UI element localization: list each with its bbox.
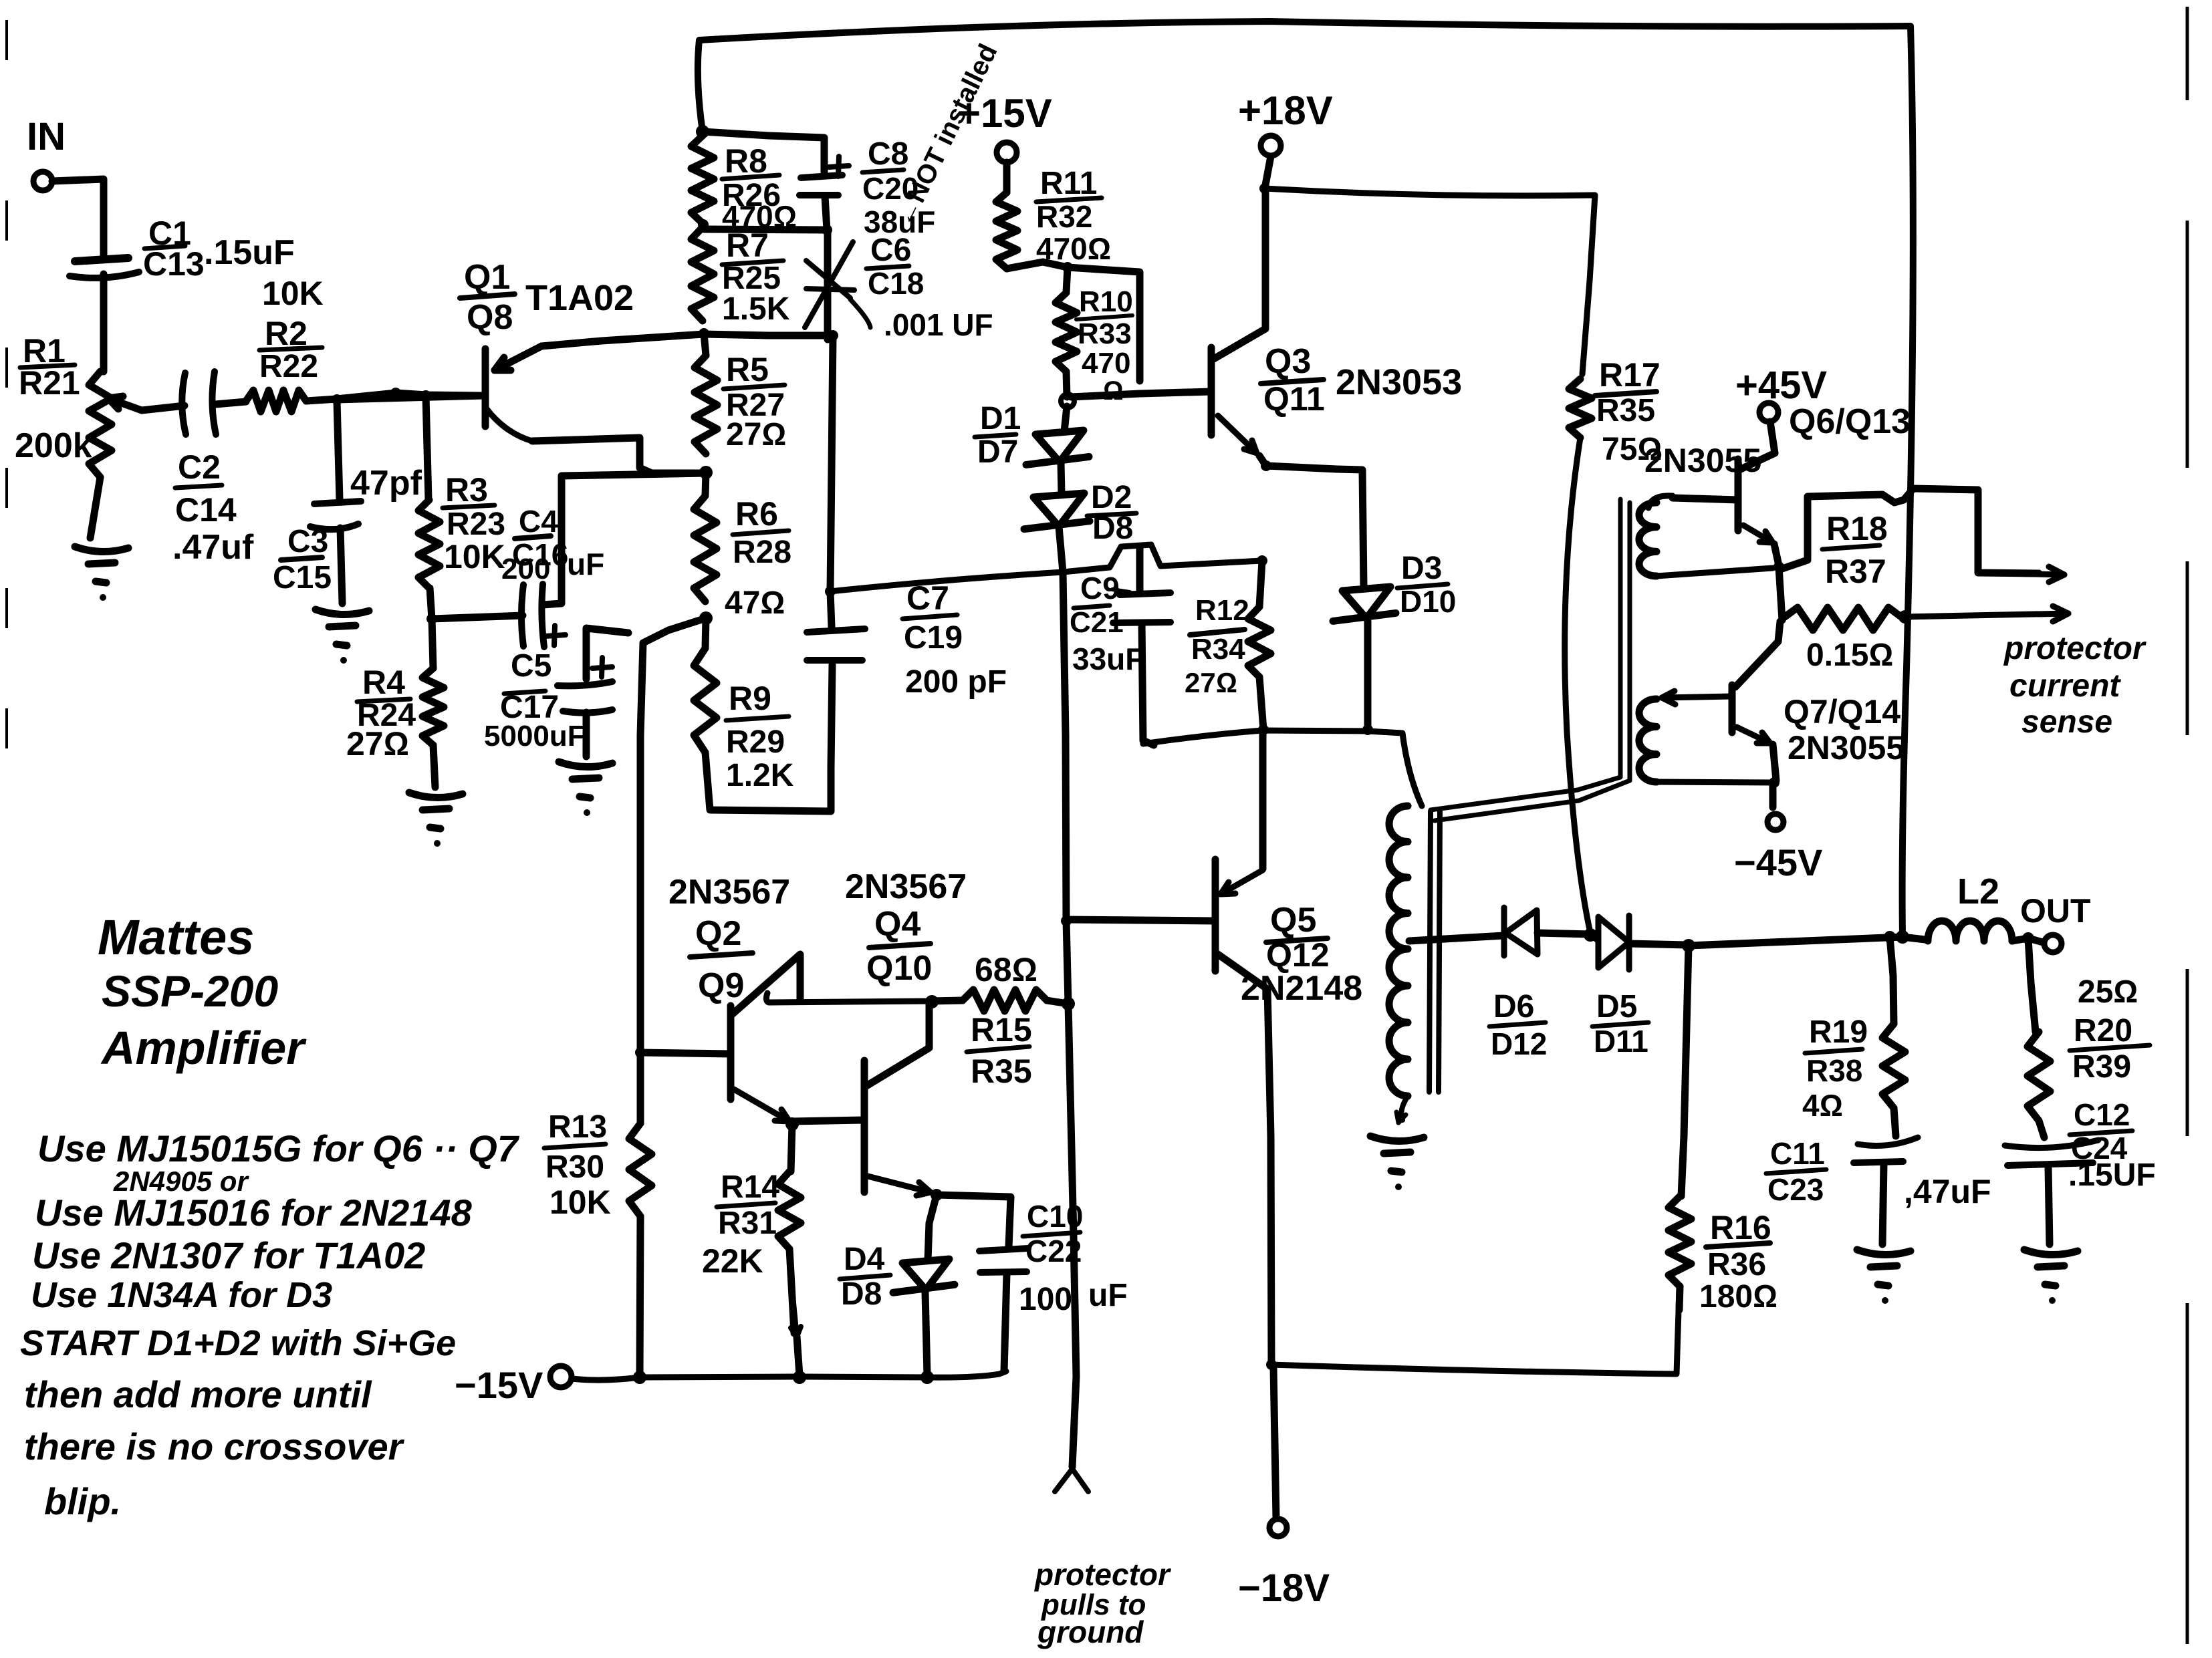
label R7/R25 1.5K [722,227,790,327]
svg-text:Q7/Q14: Q7/Q14 [1784,693,1900,730]
node C8/R8R7 wire [704,225,832,235]
svg-text:R11: R11 [1040,166,1097,201]
node D5/D6 anodes [1584,928,1597,942]
svg-text:R36: R36 [1707,1247,1766,1282]
label OUT [2020,892,2091,930]
svg-text:R12: R12 [1195,594,1249,627]
svg-text:C4: C4 [519,504,558,539]
svg-text:R30: R30 [545,1149,604,1185]
node D (Q2e/Q4b/R14) [785,1117,799,1131]
wire Q1 emitter rail [541,334,833,346]
capacitor C5 plus stub [586,628,628,679]
wire C2 to R2 [215,402,246,404]
label 2N3567 left [668,873,790,912]
terminal -18V [1269,1519,1287,1536]
svg-text:R39: R39 [2072,1049,2131,1085]
note line 2 [35,1192,473,1234]
svg-text:D8: D8 [841,1276,882,1312]
label 100uF [1019,1278,1128,1317]
label Q6/Q13 2N3055 [1644,402,1911,479]
node IN label [27,115,66,158]
node R15 right [1062,997,1075,1010]
label -18V [1238,1566,1330,1610]
resistor R7 [691,227,714,321]
svg-text:R14: R14 [721,1169,779,1205]
label Q4/Q10 [866,905,932,988]
node L2/R20 [2022,932,2034,944]
note line 7 [24,1425,405,1468]
wire protector vertical [1063,572,1076,1467]
terminal +15V [997,142,1017,162]
label R8/R26 470 [722,142,797,234]
resistor R14 [778,1124,801,1375]
node R10 top [1062,262,1073,273]
svg-text:22K: 22K [702,1242,763,1280]
svg-text:sense: sense [2021,704,2112,740]
svg-text:R35: R35 [971,1053,1032,1090]
label Q1/Q8 T1A02 [460,258,634,337]
svg-text:R29: R29 [726,724,785,760]
plus sign C8 [829,156,849,176]
diode D6 [1504,908,1590,956]
ground at C5 [559,762,612,816]
svg-text:D12: D12 [1491,1026,1547,1061]
label 25ohm [2078,974,2138,1010]
node D5 to R16 [1682,939,1695,952]
wire top border feedback [698,21,1913,936]
label R11/R32 470 [1036,166,1111,266]
svg-text:R28: R28 [733,535,791,570]
node R12 bottom [1258,724,1269,735]
svg-text:R35: R35 [1596,393,1655,428]
svg-text:47pf: 47pf [350,464,422,503]
svg-text:10K: 10K [262,275,324,312]
svg-text:47Ω: 47Ω [725,585,785,621]
wire T1 tap to D6 [1409,936,1504,941]
svg-text:Q8: Q8 [467,298,513,337]
terminal +18V [1261,136,1281,156]
diode D1 [1026,406,1089,495]
label D1/D7 [975,401,1021,470]
svg-text:R5: R5 [726,351,769,388]
svg-text:R9: R9 [729,680,771,717]
svg-text:C23: C23 [1767,1172,1824,1207]
label +18V [1238,88,1333,133]
label R3/R23 10K [443,471,505,575]
svg-text:C12: C12 [2074,1097,2130,1132]
capacitor C12 [2005,1140,2098,1244]
wire coil to Q6 base [1673,498,1738,500]
svg-text:IN: IN [27,115,66,158]
ground at R4 [409,793,463,847]
label C8/C20 38uF [862,136,935,239]
resistor R9 [694,618,717,752]
svg-text:C11: C11 [1770,1136,1825,1171]
svg-text:2N2148: 2N2148 [1241,969,1362,1008]
ground at C11 [1857,1250,1911,1304]
diode D3 [1266,466,1396,728]
wire C6 node down to C7 [830,335,833,627]
svg-text:R33: R33 [1078,317,1132,350]
svg-text:−18V: −18V [1238,1566,1330,1610]
svg-text:C18: C18 [868,266,924,301]
transformer T1 primary lower [1389,949,1408,1096]
wire bias rail [830,545,1262,591]
svg-text:C14: C14 [175,491,237,529]
svg-text:25Ω: 25Ω [2078,974,2138,1010]
label +45V [1735,364,1827,407]
svg-text:R10: R10 [1079,285,1133,318]
transformer T1 primary upper [1389,806,1408,949]
transistor Q4 2N3567 [864,1002,931,1196]
note NOT installed [890,39,1003,231]
svg-text:R31: R31 [718,1206,777,1241]
svg-text:protector: protector [2003,631,2146,666]
label Q2/Q9 [690,914,753,1005]
label C3/C15 [273,524,332,595]
svg-text:Mattes: Mattes [98,910,254,965]
transistor Q6 2N3055 [1738,422,1779,565]
svg-text:Q3: Q3 [1265,342,1311,381]
wire L2 to OUT [2012,938,2043,942]
variable capacitor C6 [805,230,870,339]
svg-text:.15uF: .15uF [204,233,295,272]
resistor R8 [691,136,714,223]
svg-text:R23: R23 [447,507,505,542]
svg-text:Q9: Q9 [698,966,744,1005]
node R18 right [1898,610,1912,624]
svg-text:D3: D3 [1401,551,1442,586]
label protector current sense [2003,631,2146,740]
label R16/R36 180 [1699,1209,1777,1315]
label R9/R29 1.2K [726,680,794,793]
svg-text:68Ω: 68Ω [975,951,1037,988]
svg-text:+45V: +45V [1735,364,1827,407]
svg-text:D6: D6 [1493,989,1534,1024]
capacitor C9 stub [1136,547,1144,591]
svg-text:Use 2N1307 for T1A02: Use 2N1307 for T1A02 [32,1234,425,1276]
label R4/R24 27ohm [346,664,416,763]
resistor R17 [1569,379,1592,438]
label D6/D12 [1489,989,1547,1061]
wire +18V rail [1265,156,1595,374]
resistor R5 [695,333,717,454]
svg-text:27Ω: 27Ω [346,725,409,763]
plus sign C4 [544,626,566,646]
svg-text:.001 UF: .001 UF [884,307,993,342]
wire Q3 base link box [1068,267,1140,381]
svg-text:,47uF: ,47uF [1904,1173,1991,1210]
svg-text:there is no crossover: there is no crossover [24,1425,405,1468]
arrowhead sense upper [2005,567,2064,582]
label R20/R39 [2070,1013,2150,1085]
svg-text:uF: uF [1088,1278,1128,1313]
node +18V [1259,183,1270,194]
svg-text:1.5K: 1.5K [722,291,790,327]
note line 6 [24,1373,372,1415]
label C7/C19 200pF [902,579,1007,700]
svg-text:10K: 10K [549,1184,611,1221]
resistor R12 [1248,561,1271,730]
svg-text:Q12: Q12 [1266,936,1330,974]
resistor R1 (200k pot) [89,372,112,538]
capacitor C10 [979,1248,1028,1371]
wire Q2 base [640,1053,731,1054]
svg-text:200k: 200k [15,426,92,465]
note line 4 [31,1275,332,1315]
label R18/R37 0.15 [1806,510,1893,673]
diode D2 [1024,493,1090,572]
label R19/R38 4 [1802,1014,1868,1123]
wire R9 bottom loop [705,665,832,811]
node C (R6/R9) [699,611,713,625]
svg-text:.15UF: .15UF [2068,1157,2156,1193]
ground at R1 [75,547,128,601]
wire Q4 base [792,1120,864,1121]
capacitor C9 [1113,593,1171,745]
wire sense lower [1905,606,2068,621]
transistor Q2 2N3567 [731,954,800,1121]
svg-text:R20: R20 [2074,1013,2132,1049]
svg-text:0.15Ω: 0.15Ω [1806,638,1893,673]
label R12/R34 27 [1185,594,1249,698]
svg-text:2N3055: 2N3055 [1788,729,1904,767]
svg-text:Q4: Q4 [874,905,920,944]
diode D4 [893,1195,955,1375]
resistor R20 [2027,938,2050,1137]
wire R10 bottom to Q3 base [1071,392,1211,397]
svg-text:C6: C6 [870,233,911,268]
wire R3 to node [430,588,432,619]
page edge left [5,20,8,748]
wire jack to C1 [52,179,104,258]
svg-text:Q10: Q10 [866,949,932,988]
label 10K R2/R22 [259,275,324,384]
label C10/C22 [1023,1199,1083,1268]
svg-text:R22: R22 [259,349,318,384]
title Mattes [98,910,254,965]
svg-text:Q5: Q5 [1270,901,1316,940]
capacitor C5 [558,682,612,756]
label D5/D11 [1592,989,1648,1059]
svg-text:R19: R19 [1809,1014,1868,1050]
svg-text:SSP-200: SSP-200 [102,966,278,1016]
transistor Q3 2N3053 [1211,191,1266,466]
svg-text:−15V: −15V [455,1364,543,1406]
label 2N3567 right [845,867,967,906]
node Q3 emitter [1261,460,1271,471]
label -15V [455,1364,543,1406]
svg-text:START D1+D2 with Si+Ge: START D1+D2 with Si+Ge [20,1323,456,1363]
resistor R13 rail [629,618,706,1375]
output coil upper [1639,496,1773,576]
label Q5/Q12 2N2148 [1241,901,1362,1008]
svg-text:blip.: blip. [44,1480,121,1522]
capacitor C3 [310,501,361,603]
title Amplifier [100,1022,307,1074]
node Q2 base tap [635,1047,646,1058]
label R1/R21 200k [15,332,92,465]
node feedback to OUT rail [1896,930,1909,944]
svg-text:Q2: Q2 [695,914,741,953]
svg-text:33uF: 33uF [1072,642,1144,676]
svg-text:2N3567: 2N3567 [668,873,790,912]
node A (R8 top) [696,125,709,138]
svg-text:Q6/Q13: Q6/Q13 [1789,402,1911,441]
node R10 bottom [1061,394,1074,408]
label -45V [1734,841,1822,883]
node Q2/Q4 collectors [925,995,939,1008]
svg-text:D10: D10 [1400,584,1456,619]
svg-text:R34: R34 [1191,633,1245,666]
terminal -15V [550,1366,572,1387]
wire R2 to Q1 base [306,393,483,401]
note 2N4905 or [113,1165,249,1197]
label Q3/Q11 2N3053 [1261,342,1462,418]
label protector pulls to ground [1033,1557,1171,1649]
svg-text:D7: D7 [977,434,1018,470]
wire Q1 collector to node B [532,438,706,473]
svg-text:protector: protector [1033,1557,1171,1592]
note line 3 [32,1234,425,1276]
note line 1 [37,1127,520,1169]
wire E to C10 [937,1195,1011,1247]
svg-text:D8: D8 [1092,511,1133,546]
node bias rail tap [825,586,836,597]
capacitor C8 [800,175,842,230]
terminal -45V [1767,814,1784,830]
inductor L2 [1928,921,2012,941]
wire -18V terminal [1273,1367,1276,1518]
svg-text:4Ω: 4Ω [1802,1088,1843,1123]
transformer T1 core [1429,811,1440,1092]
note line 8 [44,1480,121,1522]
svg-text:C10: C10 [1027,1199,1083,1234]
node C6 bottom [828,330,838,341]
label R10/R33 470 [1076,285,1133,406]
svg-text:R16: R16 [1710,1209,1771,1246]
diode D5 [1590,916,1687,970]
node R3/R4/C4 [426,613,437,624]
wire Q7 emitter to -45V [1769,785,1777,807]
transistor Q5 2N2148 [1215,730,1271,1365]
svg-text:R3: R3 [445,471,488,509]
node R8/R7 [698,219,709,230]
label C2/C14 .47uf [172,448,254,567]
svg-text:R32: R32 [1036,199,1092,234]
svg-text:R38: R38 [1806,1053,1862,1088]
svg-text:C8: C8 [868,136,908,172]
wire R11 to R10 [1007,262,1068,269]
svg-text:then add more until: then add more until [24,1373,372,1415]
terminal OUT [2044,935,2062,952]
svg-text:Amplifier: Amplifier [100,1022,307,1074]
transistor Q1 T1A02 [337,346,541,441]
svg-text:−45V: −45V [1734,841,1822,883]
svg-text:Use MJ15016 for 2N2148: Use MJ15016 for 2N2148 [35,1192,473,1234]
label +15V [957,91,1052,136]
wire node A to C8 [703,132,824,172]
svg-text:C19: C19 [904,620,963,656]
svg-text:R37: R37 [1825,553,1886,590]
svg-text:uF: uF [567,547,604,581]
svg-text:470: 470 [1082,347,1130,380]
label R6/R28 47 [725,495,791,621]
label D4/D8b [840,1242,890,1312]
svg-text:100: 100 [1019,1282,1072,1317]
resistor R16 [1669,946,1691,1310]
wire down to R3 [426,396,428,500]
capacitor C7 [807,629,865,660]
svg-text:L2: L2 [1957,871,1999,912]
label Q7/Q14 2N3055 [1784,693,1904,767]
node R12 top [1257,555,1267,566]
label C4/C16 200uF [501,504,604,585]
svg-text:+18V: +18V [1238,88,1333,133]
wire coil to Q7 base [1662,691,1731,704]
capacitor C2 [182,372,216,434]
svg-text:Q1: Q1 [464,258,510,297]
svg-text:Use 1N34A for D3: Use 1N34A for D3 [31,1275,332,1315]
svg-text:R4: R4 [362,664,405,701]
svg-text:R21: R21 [19,364,80,402]
resistor R19 [1882,937,1905,1136]
wire mid rail [766,993,932,1002]
svg-text:C13: C13 [143,245,205,283]
svg-text:200 pF: 200 pF [905,664,1007,700]
label R5/R27 27 [723,351,786,452]
svg-text:5000uF: 5000uF [484,720,586,752]
svg-text:R18: R18 [1826,510,1888,547]
page edge right [2186,7,2189,1644]
svg-text:27Ω: 27Ω [726,417,786,452]
resistor R4 [422,619,444,787]
svg-text:T1A02: T1A02 [525,278,634,318]
svg-text:R13: R13 [548,1109,607,1145]
wire Q5 base [1066,920,1215,921]
node R7/R5 emitter rail [699,328,709,339]
svg-text:+15V: +15V [957,91,1052,136]
ground at C3 [316,609,369,664]
svg-text:D4: D4 [844,1242,885,1277]
node C3 tap [332,394,342,405]
svg-text:D5: D5 [1596,989,1637,1024]
resistor R11 [996,162,1017,269]
label R17/R35 75 [1595,356,1662,467]
svg-text:D1: D1 [980,401,1021,436]
svg-text:10K: 10K [444,538,505,575]
wire node to C4 [432,615,523,619]
svg-text:R6: R6 [735,495,778,533]
transformer link double line [1431,499,1630,821]
node Q5 base tap [1061,916,1072,926]
input jack J1 [33,172,52,190]
svg-text:C5: C5 [511,648,551,684]
resistor R3 [418,500,440,588]
node Q7 emitter [1769,777,1779,788]
wiper arrow of R1 [108,396,185,410]
node D3 bottom [1362,724,1373,735]
wire sense upper [1780,489,2039,573]
label D2/D8 [1087,480,1136,546]
wire -15V rail [572,1371,1006,1380]
svg-text:Q11: Q11 [1263,380,1325,418]
resistor R15 [932,990,1068,1011]
label C1/C13 .15uF [143,215,295,283]
output coil lower [1639,699,1774,783]
node D4 bottom [920,1371,934,1384]
wire C4 to node B [543,473,706,605]
